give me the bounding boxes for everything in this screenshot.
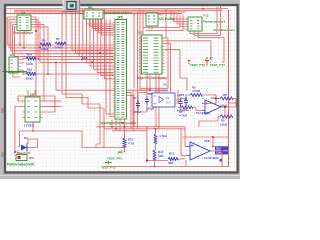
test point tick (105, 161, 112, 164)
svg-text:R15: R15 (27, 68, 33, 72)
wire U8 to resistors (21, 59, 27, 60)
wire loop to frame (222, 166, 229, 168)
junction U6 (14, 151, 16, 153)
junction R15 net (47, 73, 49, 75)
svg-text:R11: R11 (169, 152, 175, 156)
wire mid drop pair (103, 119, 105, 148)
svg-text:IC2: IC2 (138, 31, 143, 35)
connector JP9 (16, 155, 27, 161)
resistor R_a 4.7k (154, 134, 157, 144)
svg-text:4.7kΩ: 4.7kΩ (192, 89, 201, 93)
resistor R16 value chips (215, 146, 228, 150)
wire bottom long net (104, 166, 186, 168)
svg-text:U4: U4 (21, 11, 25, 15)
junction R14 right (39, 47, 41, 49)
svg-text:R4: R4 (56, 37, 60, 41)
resistor R7 (181, 106, 193, 109)
IC U10 filter (152, 93, 175, 107)
via marker (220, 159, 223, 162)
resistor R11 (168, 157, 178, 160)
svg-text:C8: C8 (148, 92, 152, 96)
svg-text:4.7kΩ: 4.7kΩ (159, 134, 168, 138)
op-amp U5B (190, 142, 210, 160)
svg-text:TLC272CP: TLC272CP (196, 111, 211, 115)
wire long verticals to lower bus (106, 19, 114, 114)
wire top bus line 4 (7, 13, 183, 15)
wire U5A network (186, 95, 190, 97)
wire U12 wrap loop (190, 7, 217, 34)
svg-text:TLC272CP: TLC272CP (204, 156, 219, 160)
svg-text:JP6: JP6 (117, 151, 122, 155)
label row marker 1 (1, 108, 4, 113)
wire top bus line 1 (7, 8, 229, 10)
svg-text:C7: C7 (133, 96, 137, 100)
wire R10 down (154, 160, 156, 167)
connector JP4 (84, 10, 103, 19)
junction R10 bottom (154, 166, 156, 168)
svg-text:Sensoranschluss: Sensoranschluss (104, 11, 131, 15)
svg-text:TEST_PT4: TEST_PT4 (210, 63, 225, 67)
wire centre mesh verticals with staircase to connector (72, 9, 114, 50)
wire U4 right drops (31, 17, 36, 97)
wire IC7 drops (148, 26, 150, 29)
junction mesh 3 (91, 61, 93, 63)
junction y90 (149, 89, 151, 91)
svg-text:100nF: 100nF (179, 97, 188, 101)
junction mesh 2 (99, 52, 101, 54)
svg-text:R14: R14 (27, 53, 33, 57)
wire D4 feed (19, 131, 21, 147)
wire JP4 bottom drops (87, 19, 114, 24)
op-amp U5A (205, 100, 221, 114)
junction staircase C (55, 62, 57, 64)
svg-text:10kΩ: 10kΩ (55, 46, 62, 50)
wire R11 right (178, 158, 185, 160)
wire top bus line 2 (14, 9, 222, 11)
wire U4 left bundle to lower bus (7, 17, 113, 45)
wire IC2 right verticals (165, 38, 169, 88)
svg-text:10kΩ: 10kΩ (26, 77, 34, 81)
svg-text:SDA: SDA (82, 56, 88, 60)
wire long drop to JP9 (20, 123, 125, 148)
label row marker 2 (1, 152, 4, 157)
svg-text:TEST_PT3: TEST_PT3 (190, 63, 205, 67)
svg-text:10kΩ: 10kΩ (41, 47, 48, 51)
junction D4 feed (32, 130, 34, 132)
svg-text:U5B: U5B (204, 139, 210, 143)
svg-text:Magic2000: Magic2000 (121, 121, 137, 125)
svg-text:4.7kΩ: 4.7kΩ (179, 114, 188, 118)
resistor R8 (220, 97, 233, 100)
LED D4 (21, 145, 27, 151)
IC U8 (9, 57, 18, 73)
svg-text:4.7Ω: 4.7Ω (128, 142, 135, 146)
wire U10 loops (140, 89, 168, 91)
wire sheet frame right (228, 10, 230, 167)
junction U5B (212, 136, 214, 138)
junction R top (155, 128, 157, 130)
IC IC2 pin stubs (139, 38, 165, 72)
capacitor C10 (184, 97, 188, 107)
svg-text:Thermofühler: Thermofühler (13, 31, 34, 35)
junction bottom (146, 159, 148, 161)
wire IC2 left verticals (137, 12, 139, 129)
wire D4 loop (28, 139, 38, 148)
wire IC2 bottom drops (146, 74, 148, 93)
wire JP5 right side drops (127, 93, 131, 129)
svg-text:TEST_PT1: TEST_PT1 (107, 157, 122, 161)
wire U5B input net (185, 127, 188, 147)
svg-text:10kΩ: 10kΩ (220, 123, 228, 127)
wire mid horizontal pair from U6 (43, 106, 59, 108)
capacitor C9 (179, 98, 183, 107)
junction top right (202, 8, 204, 10)
wire IC7 to U12 horizontals (143, 27, 180, 29)
wire staircase B (66, 9, 104, 129)
svg-text:56Ω: 56Ω (158, 154, 164, 158)
svg-text:D4: D4 (24, 136, 28, 140)
svg-text:Plattensensor8: Plattensensor8 (203, 20, 225, 24)
svg-text:U12: U12 (203, 14, 209, 18)
wire U5B loops (210, 150, 229, 152)
svg-text:JP4: JP4 (87, 6, 93, 10)
resistor R10 (153, 150, 156, 160)
svg-text:JP_P7: JP_P7 (205, 57, 213, 61)
IC IC2 (142, 35, 163, 74)
junction U4 right (35, 30, 37, 32)
svg-text:IC7: IC7 (159, 13, 164, 17)
junction mesh 1 (81, 59, 83, 61)
connector U4 (17, 15, 31, 31)
capacitor C7 (136, 100, 140, 109)
wire second y88 line (140, 87, 168, 89)
IC U6 pin stubs (23, 101, 43, 118)
junction lower bus (111, 126, 113, 128)
junction U5A out (224, 106, 226, 108)
IC U6 (25, 97, 40, 122)
wire R_a to R10 (155, 144, 157, 151)
svg-text:OUT: OUT (166, 103, 171, 105)
wire staircase C (55, 62, 57, 90)
svg-text:Verstärker neu: Verstärker neu (213, 28, 235, 32)
svg-text:U8: U8 (10, 53, 14, 57)
svg-text:10kΩ: 10kΩ (26, 62, 34, 66)
IC U12 (188, 17, 202, 31)
resistor R9 (220, 115, 233, 118)
wire U6 loop (27, 90, 29, 97)
svg-text:JP9: JP9 (29, 156, 35, 160)
wire U4 extra bus lines (19, 31, 21, 45)
svg-text:SuperVisionDisplay: SuperVisionDisplay (137, 76, 167, 80)
junction R12 bottom (124, 146, 126, 148)
capacitor C8 (145, 96, 149, 105)
IC IC7 (146, 13, 158, 26)
junction U4 drops (19, 44, 21, 46)
wire long net y90 (56, 89, 140, 91)
connector JP5 (115, 20, 127, 120)
wire lower bus drops from JP5 (111, 120, 113, 127)
svg-text:Platinenabschnitt: Platinenabschnitt (7, 163, 35, 167)
wire staircase A (62, 10, 100, 127)
wire U12 input nest (171, 10, 188, 19)
svg-text:R8: R8 (223, 93, 227, 97)
resistor R12 (123, 138, 126, 147)
IC U8 pin stubs (18, 60, 21, 71)
svg-text:R3: R3 (42, 39, 46, 43)
connector JP5 left pin stubs (113, 23, 115, 117)
wire R12 down (119, 147, 125, 152)
wire centre bottom net (147, 127, 168, 161)
svg-text:56Ω: 56Ω (168, 161, 174, 165)
svg-text:R16: R16 (216, 146, 221, 150)
wire lower bus (96, 126, 185, 128)
svg-text:JP5: JP5 (117, 16, 123, 20)
svg-text:U5: U5 (163, 83, 167, 87)
wire top bus line 3 (14, 11, 186, 13)
